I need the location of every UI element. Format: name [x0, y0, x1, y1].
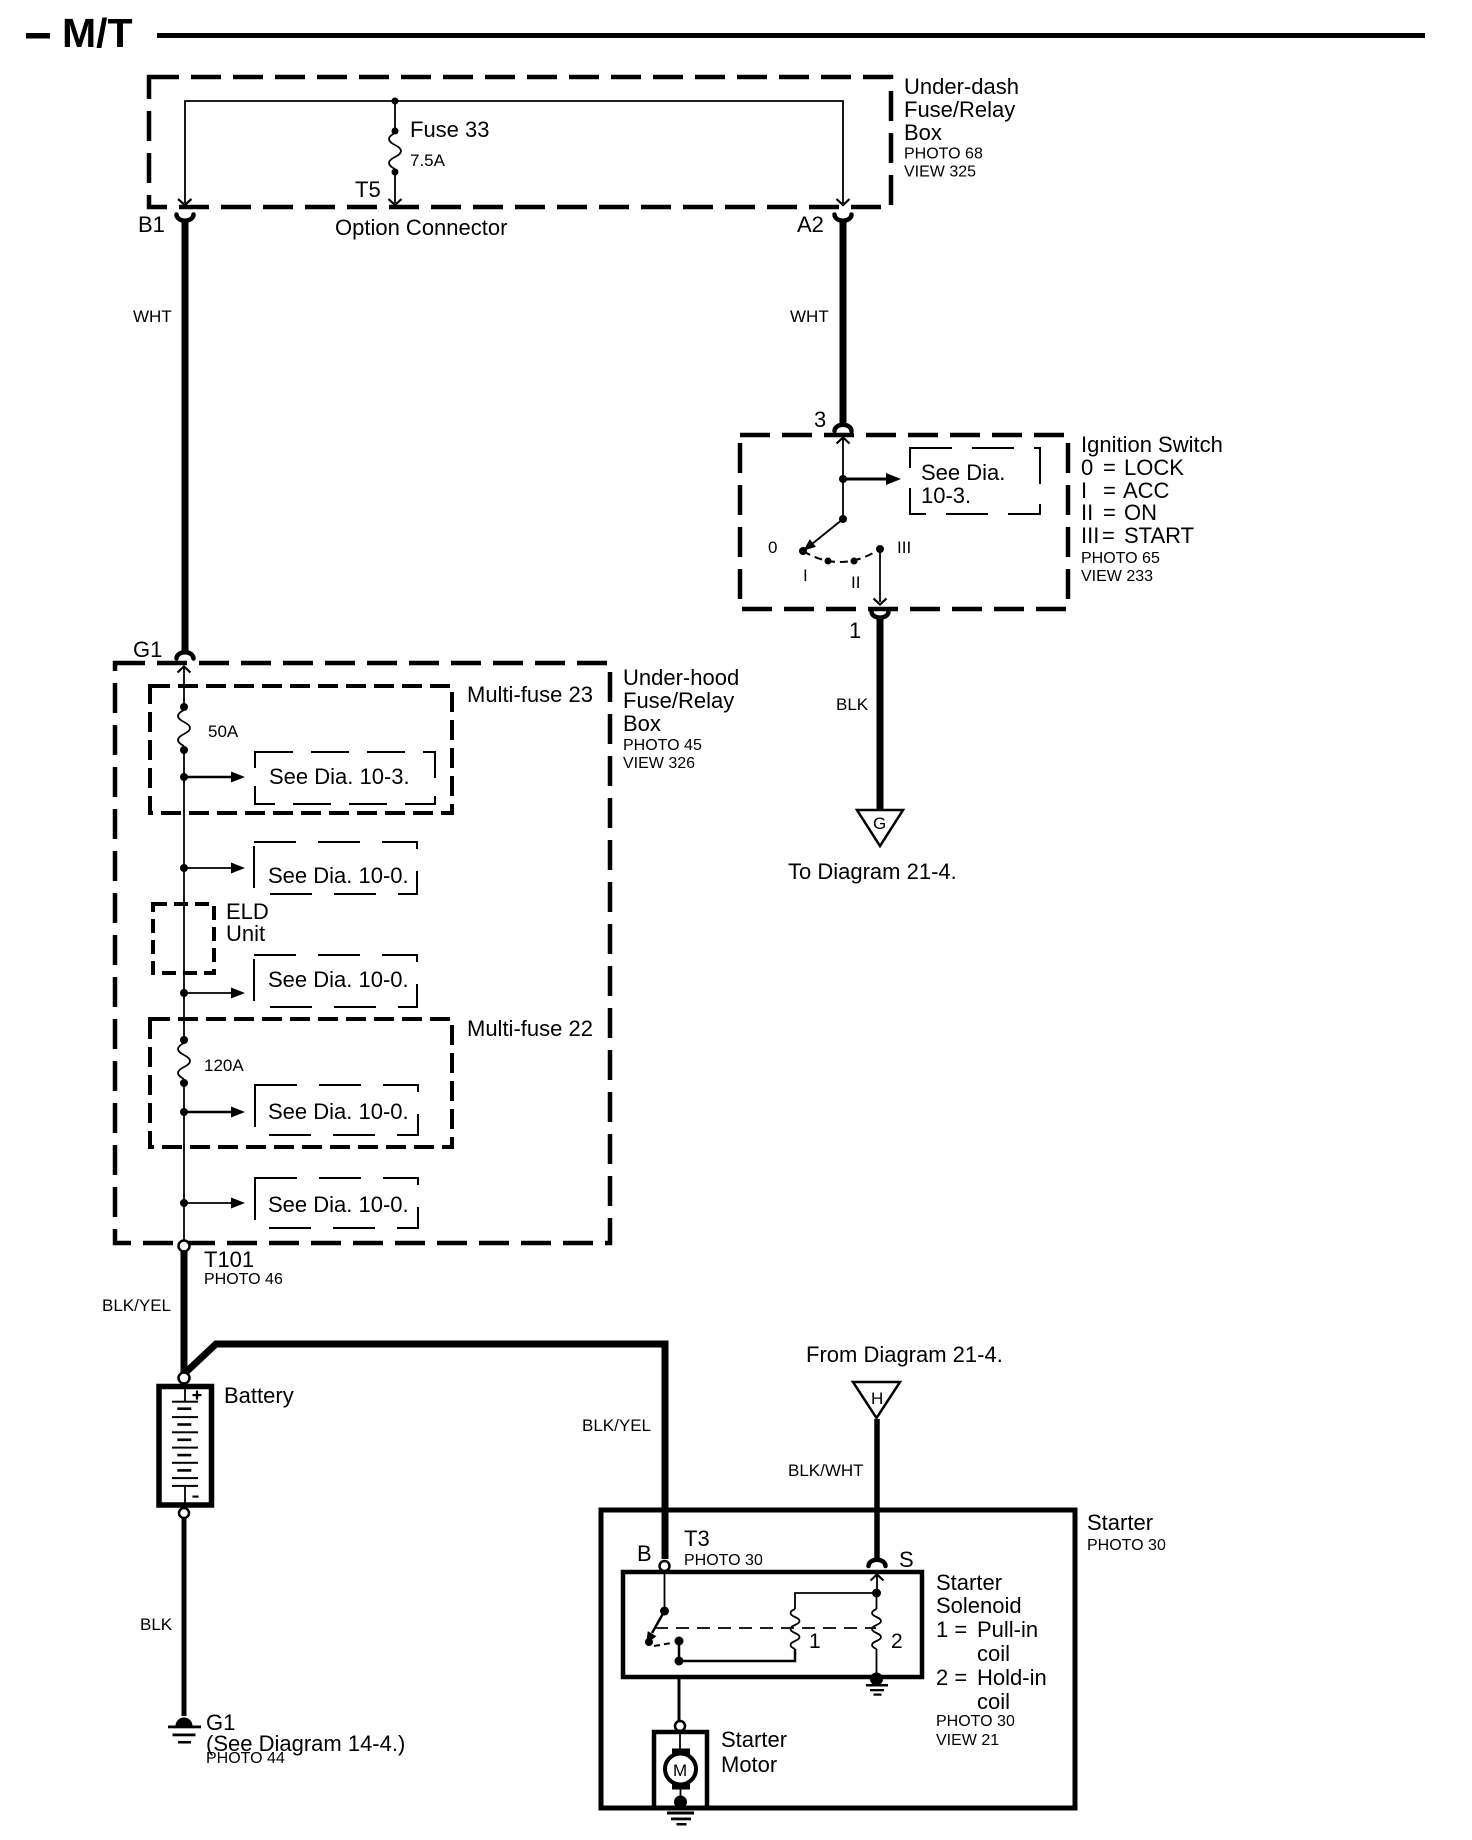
svg-text:Fuse 33: Fuse 33	[410, 117, 490, 142]
svg-text:PHOTO 45: PHOTO 45	[623, 737, 702, 754]
svg-text:See Dia. 10-0.: See Dia. 10-0.	[268, 967, 409, 992]
svg-text:3: 3	[814, 407, 826, 432]
svg-text:Fuse/Relay: Fuse/Relay	[623, 688, 734, 713]
svg-text:1: 1	[849, 618, 861, 643]
svg-text:10-3.: 10-3.	[921, 483, 971, 508]
svg-text:Fuse/Relay: Fuse/Relay	[904, 97, 1015, 122]
svg-text:Box: Box	[904, 120, 942, 145]
svg-text:Solenoid: Solenoid	[936, 1593, 1022, 1618]
svg-text:From Diagram 21-4.: From Diagram 21-4.	[806, 1342, 1003, 1367]
svg-text:coil: coil	[977, 1689, 1010, 1714]
svg-text:Starter: Starter	[1087, 1510, 1153, 1535]
svg-text:G1: G1	[133, 637, 162, 662]
svg-text:2 =: 2 =	[936, 1665, 967, 1690]
svg-text:=: =	[1102, 523, 1115, 548]
svg-text:0: 0	[768, 538, 777, 557]
svg-text:T3: T3	[684, 1526, 710, 1551]
svg-text:Multi-fuse 22: Multi-fuse 22	[467, 1016, 593, 1041]
svg-text:BLK/YEL: BLK/YEL	[582, 1416, 651, 1435]
svg-text:III: III	[1081, 523, 1099, 548]
svg-text:BLK/YEL: BLK/YEL	[102, 1296, 171, 1315]
svg-text:S: S	[899, 1547, 914, 1572]
svg-text:120A: 120A	[204, 1056, 244, 1075]
svg-text:1: 1	[809, 1630, 821, 1653]
svg-text:VIEW 233: VIEW 233	[1081, 568, 1153, 585]
svg-text:T5: T5	[355, 177, 381, 202]
svg-text:B1: B1	[138, 212, 165, 237]
svg-text:Under-hood: Under-hood	[623, 665, 739, 690]
svg-text:G: G	[873, 814, 886, 833]
svg-text:=: =	[1103, 500, 1116, 525]
svg-text:Ignition Switch: Ignition Switch	[1081, 432, 1223, 457]
svg-text:Motor: Motor	[721, 1752, 777, 1777]
svg-text:Option Connector: Option Connector	[335, 215, 507, 240]
svg-text:PHOTO 68: PHOTO 68	[904, 146, 983, 163]
svg-text:M/T: M/T	[62, 10, 133, 56]
svg-text:PHOTO 30: PHOTO 30	[1087, 1537, 1166, 1554]
svg-text:1 =: 1 =	[936, 1617, 967, 1642]
svg-text:See Dia. 10-0.: See Dia. 10-0.	[268, 1099, 409, 1124]
svg-text:A2: A2	[797, 212, 824, 237]
svg-text:To Diagram 21-4.: To Diagram 21-4.	[788, 859, 957, 884]
svg-text:See Dia. 10-3.: See Dia. 10-3.	[269, 764, 410, 789]
svg-text:0: 0	[1081, 455, 1093, 480]
svg-text:BLK/WHT: BLK/WHT	[788, 1461, 864, 1480]
svg-text:III: III	[897, 538, 911, 557]
svg-text:50A: 50A	[208, 722, 239, 741]
svg-text:7.5A: 7.5A	[410, 151, 446, 170]
svg-text:M: M	[673, 1761, 687, 1780]
svg-text:PHOTO 30: PHOTO 30	[684, 1552, 763, 1569]
svg-text:WHT: WHT	[790, 307, 829, 326]
svg-text:=: =	[1103, 455, 1116, 480]
svg-text:Starter: Starter	[721, 1727, 787, 1752]
svg-text:PHOTO 30: PHOTO 30	[936, 1713, 1015, 1730]
svg-text:Under-dash: Under-dash	[904, 74, 1019, 99]
svg-text:coil: coil	[977, 1641, 1010, 1666]
svg-text:WHT: WHT	[133, 307, 172, 326]
svg-text:PHOTO 44: PHOTO 44	[206, 1750, 285, 1767]
svg-text:II: II	[851, 573, 860, 592]
svg-text:START: START	[1124, 523, 1194, 548]
svg-text:II: II	[1081, 500, 1093, 525]
svg-text:Starter: Starter	[936, 1570, 1002, 1595]
svg-text:H: H	[871, 1389, 883, 1408]
svg-text:See Dia.: See Dia.	[921, 460, 1005, 485]
svg-text:See Dia. 10-0.: See Dia. 10-0.	[268, 863, 409, 888]
svg-text:Battery: Battery	[224, 1383, 294, 1408]
svg-text:BLK: BLK	[140, 1615, 173, 1634]
svg-text:Hold-in: Hold-in	[977, 1665, 1047, 1690]
svg-text:Multi-fuse 23: Multi-fuse 23	[467, 682, 593, 707]
svg-text:I: I	[803, 566, 808, 585]
svg-text:Unit: Unit	[226, 921, 265, 946]
svg-text:VIEW 326: VIEW 326	[623, 755, 695, 772]
svg-text:T101: T101	[204, 1247, 254, 1272]
svg-text:Pull-in: Pull-in	[977, 1617, 1038, 1642]
svg-text:PHOTO 65: PHOTO 65	[1081, 550, 1160, 567]
svg-text:BLK: BLK	[836, 695, 869, 714]
svg-text:PHOTO 46: PHOTO 46	[204, 1271, 283, 1288]
svg-text:VIEW 325: VIEW 325	[904, 164, 976, 181]
svg-text:See Dia. 10-0.: See Dia. 10-0.	[268, 1192, 409, 1217]
svg-text:2: 2	[891, 1630, 903, 1653]
svg-text:B: B	[637, 1541, 652, 1566]
svg-text:LOCK: LOCK	[1124, 455, 1184, 480]
svg-text:ON: ON	[1124, 500, 1157, 525]
svg-text:Box: Box	[623, 711, 661, 736]
svg-text:VIEW 21: VIEW 21	[936, 1732, 999, 1749]
